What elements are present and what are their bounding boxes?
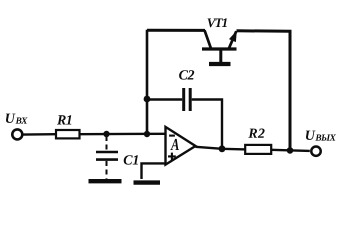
wire input row <box>23 133 56 136</box>
emitter lead with arrow <box>229 31 236 48</box>
ground (VT1 base) <box>209 62 231 66</box>
collector lead <box>205 30 211 48</box>
label A <box>170 139 179 150</box>
wire output row <box>196 147 247 150</box>
resistor R1 <box>56 130 80 138</box>
label C1 <box>124 155 138 164</box>
capacitor C1 (dashed leads) <box>106 136 108 151</box>
op-amp U1 <box>166 127 196 165</box>
node E (output junction) <box>287 147 294 154</box>
base bar <box>202 47 237 50</box>
label C2 <box>179 70 194 79</box>
resistor R2 <box>245 145 271 154</box>
node D (op-amp output / C2 junction) <box>219 145 226 152</box>
label R2 <box>248 129 264 138</box>
input terminal Uvx <box>12 129 22 139</box>
base stem <box>219 51 222 63</box>
wire top <box>147 29 205 32</box>
wire C2 branch <box>147 98 182 100</box>
label R1 <box>57 115 71 124</box>
node C (C2 branch junction) <box>144 96 151 103</box>
capacitor C2 <box>182 88 185 111</box>
minus input mark <box>169 135 175 137</box>
plus input mark <box>168 153 176 161</box>
label Uvx <box>6 114 28 124</box>
node A (R1/C1 junction) <box>103 131 109 137</box>
output terminal Uvyh <box>311 147 320 156</box>
transistor VT1 <box>202 30 237 62</box>
node B (input wire / vertical wire junction) <box>144 131 150 137</box>
label Uvyh <box>306 131 336 141</box>
wire plus input to ground <box>142 163 166 179</box>
wire left vertical <box>146 30 149 134</box>
ground (op-amp +) <box>134 180 161 184</box>
ground (C1) <box>89 179 122 183</box>
label VT1 <box>208 18 227 27</box>
